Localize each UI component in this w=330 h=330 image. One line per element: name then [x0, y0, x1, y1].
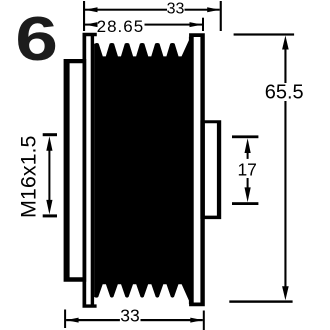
- dimension 28.65: right extension line: [202, 18, 204, 31]
- right boss outline: [200, 120, 221, 219]
- top dimension 33: dimension line: [85, 9, 167, 11]
- bottom dimension 33: left extension line: [64, 310, 66, 329]
- bottom dimension 33: right arrowhead: [190, 318, 203, 323]
- svg-text:6: 6: [15, 4, 58, 73]
- top dimension 33: right arrowhead: [207, 7, 220, 12]
- bottom dimension 33: left arrowhead: [66, 318, 79, 323]
- top dimension 33: left arrowhead: [85, 7, 98, 12]
- dimension 28.65: right arrowhead: [190, 22, 203, 27]
- dimension 65.5: dimension line: [284, 48, 286, 83]
- sleeve (threaded hub, left outline): [64, 59, 87, 282]
- pulley body (ribbed silhouette): [94, 37, 192, 304]
- dimension 65.5: up arrowhead: [282, 36, 289, 50]
- dimension 65.5: bottom extension line: [229, 300, 292, 302]
- bottom dimension 33: right extension line: [203, 311, 205, 330]
- svg-text:33: 33: [167, 1, 185, 18]
- svg-text:33: 33: [120, 306, 139, 326]
- dimension M16x1.5: up arrowhead: [46, 136, 52, 151]
- dimension M16x1.5: top tick: [43, 133, 57, 136]
- dimension 17: up arrowhead and line: [245, 138, 251, 153]
- svg-text:17: 17: [237, 160, 256, 180]
- top dimension 33: right extension line: [220, 1, 222, 31]
- dimension 17: bottom tick: [232, 202, 258, 205]
- svg-text:28.65: 28.65: [97, 17, 145, 36]
- dimension 28.65: left arrowhead: [85, 22, 98, 27]
- svg-text:M16x1.5: M16x1.5: [16, 135, 40, 218]
- dimension 65.5: top extension line: [234, 33, 295, 35]
- right flange outline: [189, 33, 205, 306]
- dimension M16x1.5: bottom tick: [43, 214, 57, 217]
- dimension 28.65: dimension line: [85, 24, 96, 26]
- dimension M16x1.5: dimension line: [48, 150, 50, 202]
- dimension 17: top tick: [232, 135, 258, 138]
- bottom dimension 33: dimension line: [66, 319, 120, 321]
- svg-text:65.5: 65.5: [265, 82, 304, 104]
- left flange outline: [83, 33, 97, 308]
- dimension 65.5: down arrowhead: [282, 286, 289, 300]
- dimension M16x1.5: down arrowhead: [46, 200, 52, 215]
- dimension 17: down arrowhead and line: [245, 187, 251, 202]
- top dimension 33: left extension line: [83, 1, 85, 31]
